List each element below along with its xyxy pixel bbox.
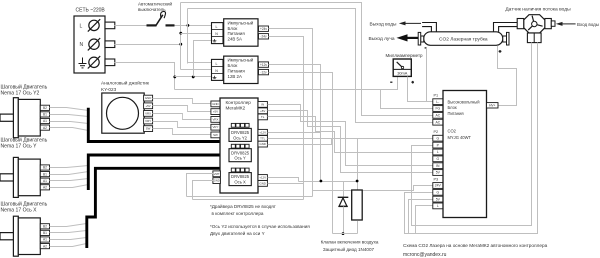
motor Ось Y2 pins B2 B1 A1 A2: [40, 105, 49, 110]
svg-text:SW: SW: [213, 133, 218, 137]
driver header strip Y: [231, 144, 235, 148]
water outlet pipe elbow: [422, 23, 436, 32]
svg-text:Блок: Блок: [228, 63, 238, 68]
svg-text:Датчик наличия потока воды: Датчик наличия потока воды: [505, 6, 571, 12]
wire controller VMT to +24v bottom rail: [187, 174, 215, 197]
power inlet tab PE: [105, 59, 115, 66]
svg-text:P3: P3: [434, 178, 439, 182]
svg-text:GND: GND: [259, 142, 265, 146]
svg-text:FG: FG: [435, 107, 440, 111]
svg-text:G: G: [436, 191, 439, 195]
svg-text:+24v: +24v: [260, 27, 267, 31]
svg-text:L: L: [437, 204, 439, 208]
svg-text:Блок: Блок: [228, 26, 238, 31]
svg-text:VMT: VMT: [214, 172, 220, 176]
motor Ось X pins B2 B1 A1 A2: [40, 224, 49, 229]
wire controller +5V to HV P2 5V: [268, 111, 433, 173]
wire -24v rail: [269, 37, 304, 200]
svg-text:5V: 5V: [436, 197, 441, 201]
svg-text:Импульсный: Импульсный: [228, 58, 254, 63]
switching PSU 24В 5А box: [224, 19, 258, 46]
air valve solenoid: [352, 190, 363, 220]
svg-text:5V: 5V: [436, 171, 441, 175]
svg-text:Ось Y2: Ось Y2: [233, 135, 247, 140]
svg-text:Блок: Блок: [448, 105, 457, 110]
svg-text:Ось Y: Ось Y: [234, 156, 246, 161]
wire L tab to breaker: [115, 25, 147, 27]
svg-text:МегаМК2: МегаМК2: [226, 106, 246, 111]
power inlet PE ground symbol: [82, 58, 84, 64]
svg-text:GND: GND: [145, 96, 151, 100]
joystick pins GND +5V VRX VRY SW: [144, 95, 153, 101]
water flow sensor bottom outlet: [527, 33, 541, 43]
svg-text:A1: A1: [43, 238, 47, 242]
controller right pins +12V TTL GND: [258, 129, 267, 135]
svg-text:P1: P1: [434, 94, 439, 98]
node PE junction 2: [192, 76, 195, 79]
wire valve bottom: [357, 221, 359, 234]
HV PSU HV+ output pin: [487, 103, 499, 108]
wire +24v rail: [269, 29, 313, 197]
svg-text:HV+: HV+: [489, 103, 495, 107]
svg-text:N: N: [215, 69, 218, 73]
svg-text:B2: B2: [43, 106, 47, 110]
wire diode bottom to -12v rail: [343, 207, 345, 234]
power supply connector L/N/PE (12В 2А): [212, 59, 224, 80]
svg-text:DRV8825: DRV8825: [231, 174, 250, 179]
controller left pins VMT GND: [213, 171, 221, 177]
motor X lead wires: [50, 224, 87, 227]
svg-text:A2: A2: [43, 244, 47, 248]
svg-text:A2: A2: [43, 185, 47, 189]
svg-text:Высоковольтный: Высоковольтный: [448, 100, 480, 105]
wire laser tube cathode to HV L-: [426, 48, 428, 102]
HV PSU P3 pins 24V G 5V L: [433, 183, 443, 189]
water flow sensor rotor spokes: [532, 16, 534, 22]
svg-text:Автоматический: Автоматический: [138, 1, 172, 7]
controller MegaMK2 box: [220, 98, 258, 193]
wire controller lower +12V to diode feed: [268, 178, 299, 182]
motor Y2 thick cable bus to driver Y2: [88, 108, 231, 142]
wire +12v rail: [269, 65, 321, 182]
motor Ось Y pins B2 B1 A1 A2: [40, 165, 49, 170]
PSU output pin -24v: [259, 34, 269, 39]
wire HV+ to laser tube anode: [498, 46, 517, 106]
svg-text:TL: TL: [261, 115, 265, 119]
wire L bus to PSU2 L pin: [188, 62, 212, 64]
svg-text:Двух двигателей на оси Y: Двух двигателей на оси Y: [210, 230, 265, 236]
laser tube right flange: [503, 36, 507, 42]
svg-text:L: L: [437, 150, 439, 154]
svg-text:B2: B2: [43, 224, 47, 228]
wire diode top feed: [343, 182, 345, 197]
svg-text:CO2 Лазерная трубка: CO2 Лазерная трубка: [439, 36, 488, 42]
wire HV P3 L stub: [416, 206, 433, 234]
stepper motor Ось Y: [13, 157, 18, 197]
stepper driver DRV8825 axis Y: [229, 149, 251, 162]
svg-text:Вход воды: Вход воды: [577, 22, 599, 27]
svg-text:Питания: Питания: [228, 69, 246, 74]
stepper driver DRV8825 axis Y2: [229, 128, 251, 141]
node diode bottom junction: [342, 232, 345, 235]
svg-text:AC: AC: [435, 114, 440, 118]
svg-text:Шаговый Двигатель: Шаговый Двигатель: [1, 200, 48, 207]
wire -24v bottom rail: [193, 199, 304, 201]
svg-text:Миллиамперметр: Миллиамперметр: [385, 53, 423, 58]
stepper motor Ось X: [13, 216, 18, 256]
svg-text:+12v: +12v: [260, 63, 267, 67]
svg-text:VRY: VRY: [145, 119, 151, 123]
svg-text:+12V: +12V: [259, 130, 266, 134]
driver header strip X: [231, 168, 235, 172]
PSU output pin +12v: [259, 62, 269, 67]
PSU output pin +24v: [259, 26, 269, 31]
wire N bus top horizontal to HV AC: [181, 3, 433, 116]
water outlet arrow: [405, 22, 421, 24]
laser tube anode + mark: [499, 50, 502, 52]
svg-text:L: L: [216, 25, 218, 29]
svg-text:Клапан включения воздуха: Клапан включения воздуха: [321, 240, 379, 245]
svg-text:Выход воды: Выход воды: [370, 21, 398, 27]
PSU output pin -12v: [259, 69, 269, 74]
svg-text:DRV8825: DRV8825: [231, 150, 250, 155]
laser tube left flange: [421, 36, 424, 42]
svg-text:G: G: [436, 136, 439, 140]
wire milliammeter + to HV L-: [408, 77, 433, 102]
svg-text:KY-023: KY-023: [101, 87, 117, 92]
svg-text:CO2: CO2: [448, 129, 457, 134]
svg-text:Контроллер: Контроллер: [226, 100, 252, 105]
svg-text:Выход луча: Выход луча: [368, 36, 394, 42]
svg-text:SW: SW: [146, 127, 151, 131]
svg-text:VRY: VRY: [212, 125, 218, 129]
analog joystick KY-023: [102, 93, 144, 133]
svg-text:Nema 17 Ось X: Nema 17 Ось X: [1, 208, 38, 214]
svg-text:A1: A1: [43, 119, 47, 123]
svg-text:G: G: [436, 157, 439, 161]
milliammeter + mark: [411, 81, 414, 83]
joystick signal wires to controller: [153, 99, 211, 104]
svg-text:Аналоговый джойстик: Аналоговый джойстик: [101, 80, 150, 86]
wire flow sensor signal A: [412, 43, 532, 226]
milliammeter mA1: [393, 59, 411, 76]
wire HV P3 5V stub: [409, 200, 433, 234]
controller right pins IN +5V TL: [258, 102, 267, 108]
wire breaker to PSU1 L pin: [175, 25, 212, 27]
node L bus junction: [187, 24, 190, 27]
high-voltage PSU box MYJG 40WT: [443, 91, 487, 218]
svg-text:B2: B2: [43, 166, 47, 170]
wire N bus to PSU2 N pin: [181, 69, 212, 71]
svg-text:СЕТЬ ~220В: СЕТЬ ~220В: [76, 8, 106, 14]
node valve feed junction: [356, 180, 359, 183]
svg-text:Питания: Питания: [228, 31, 246, 36]
svg-text:L: L: [216, 62, 218, 66]
wire N tab to N bus: [115, 44, 181, 46]
wire controller GND-left to -24v bottom rail: [193, 181, 215, 200]
svg-text:Питания: Питания: [448, 111, 464, 116]
water flow sensor left nut: [517, 19, 524, 29]
svg-text:Nema 17 Ось Y: Nema 17 Ось Y: [1, 144, 38, 150]
power supply connector L/N/PE (24В 5А): [212, 23, 224, 44]
svg-text:VRX: VRX: [212, 117, 218, 121]
svg-text:AC: AC: [435, 120, 440, 124]
wire controller lower GND to -24v rail: [268, 183, 304, 185]
node N to PSU1 junction: [179, 32, 182, 35]
wire PE to HV FG pin: [175, 77, 398, 90]
svg-text:IN: IN: [261, 102, 264, 106]
water flow sensor right stub: [551, 21, 555, 26]
beam output arrow: [406, 37, 418, 39]
controller left pins GND +5V VRX VRY SW: [211, 101, 220, 107]
water inlet pipe elbow: [494, 23, 518, 32]
svg-text:MYJG 40WT: MYJG 40WT: [448, 135, 472, 140]
motor Y thick cable bus to driver Y: [88, 146, 231, 190]
wire -12v rail: [269, 73, 333, 234]
svg-text:DRV8825: DRV8825: [231, 130, 250, 135]
svg-text:Защитный диод 1N4007: Защитный диод 1N4007: [323, 246, 375, 252]
svg-text:N: N: [215, 32, 218, 36]
node +12v rail junction at diode feed: [320, 180, 323, 183]
wire PE tab down: [115, 63, 175, 90]
svg-text:N: N: [80, 42, 84, 48]
svg-text:12В 2А: 12В 2А: [228, 74, 242, 79]
svg-text:в комплект контроллера: в комплект контроллера: [212, 211, 264, 216]
svg-text:A2: A2: [43, 126, 47, 130]
node N bus junction: [179, 43, 182, 46]
water flow sensor right nut: [545, 19, 551, 29]
water flow sensor body: [524, 15, 545, 33]
svg-text:VRX: VRX: [145, 111, 151, 115]
wire controller TTL to air valve: [268, 139, 358, 191]
svg-text:+5V: +5V: [260, 109, 265, 113]
wire valve bottom to -12v rail: [333, 233, 358, 235]
svg-text:IN: IN: [436, 164, 440, 168]
svg-text:*Драйвера DRV8825 не входят: *Драйвера DRV8825 не входят: [210, 203, 277, 209]
svg-text:*Ось Y2 используется в случае: *Ось Y2 используется в случае использова…: [210, 224, 310, 229]
svg-text:Nema 17 Ось Y2: Nema 17 Ось Y2: [1, 91, 40, 97]
svg-text:GND: GND: [214, 179, 220, 183]
switching PSU 12В 2А box: [224, 56, 258, 83]
wire PE to PSU2 ground pin: [175, 76, 212, 78]
wire N bus to PSU1 N pin: [181, 33, 212, 35]
svg-text:Импульсный: Импульсный: [228, 20, 254, 25]
svg-text:+12V: +12V: [259, 176, 266, 180]
svg-text:GND: GND: [259, 181, 265, 185]
laser tube cathode - mark: [425, 47, 427, 49]
svg-text:GND: GND: [212, 102, 218, 106]
svg-text:24В 5А: 24В 5А: [228, 37, 242, 42]
svg-text:L: L: [80, 23, 83, 29]
svg-text:mcronc@yandex.ru: mcronc@yandex.ru: [403, 252, 447, 258]
stepper driver DRV8825 axis X: [229, 173, 251, 186]
CO2 laser tube: [424, 32, 503, 46]
motor Y2 lead wires: [50, 108, 89, 111]
motor Y lead wires: [50, 166, 89, 168]
HV PSU P2 pins G P L G IN 5V: [433, 135, 443, 141]
svg-text:B1: B1: [43, 113, 47, 117]
svg-text:-24v: -24v: [260, 34, 267, 38]
svg-text:Схема CO2 Лазера на основе Мег: Схема CO2 Лазера на основе МегаМК2 автон…: [403, 243, 548, 248]
circuit breaker QF1: [147, 24, 157, 26]
wire L bus top horizontal to HV AC: [188, 9, 433, 123]
wire controller TL to HV P2 L: [268, 117, 433, 153]
svg-text:P2: P2: [434, 130, 439, 134]
svg-text:B1: B1: [43, 172, 47, 176]
wire diode feed horizontal: [299, 181, 358, 183]
wire +24v bottom rail: [187, 196, 313, 198]
milliammeter - mark: [390, 81, 392, 83]
wire controller IN to HV P2 IN: [268, 105, 433, 166]
svg-text:+5V: +5V: [213, 110, 218, 114]
wire PSU1 ground pin to PE bus: [194, 41, 212, 77]
svg-text:L-: L-: [436, 100, 439, 104]
stepper motor Ось Y2: [13, 98, 18, 138]
driver header strip Y2: [231, 123, 235, 127]
svg-text:24V: 24V: [435, 184, 442, 188]
wire N bus vertical: [180, 3, 182, 70]
svg-text:Шаговый Двигатель: Шаговый Двигатель: [1, 83, 48, 90]
power inlet tab L: [105, 22, 115, 29]
svg-text:+5V: +5V: [145, 104, 150, 108]
motor X thick cable bus to driver X: [87, 168, 232, 248]
svg-text:TTL: TTL: [260, 136, 266, 140]
power inlet tab N: [105, 41, 115, 48]
HV PSU P1 pins L- FG AC AC: [433, 99, 443, 105]
svg-text:Ось X: Ось X: [234, 180, 246, 185]
water inlet arrow: [562, 23, 576, 25]
svg-text:Шаговый Двигатель: Шаговый Двигатель: [1, 137, 48, 144]
wire +24v rail to HV P3 24V: [313, 186, 433, 191]
svg-text:B1: B1: [43, 231, 47, 235]
node PE junction 1: [173, 76, 176, 79]
svg-text:-12v: -12v: [260, 70, 267, 74]
protective diode 1N4007: [338, 196, 349, 198]
wire controller +12V to +12v rail: [268, 132, 321, 134]
svg-text:30mA: 30mA: [397, 71, 408, 76]
wire flow sensor signal B: [405, 43, 538, 234]
controller right pins +12V GND lower: [258, 175, 267, 181]
wire L bus vertical: [187, 9, 189, 64]
wire controller GND to HV P2 G: [268, 139, 433, 145]
svg-text:A1: A1: [43, 179, 47, 183]
